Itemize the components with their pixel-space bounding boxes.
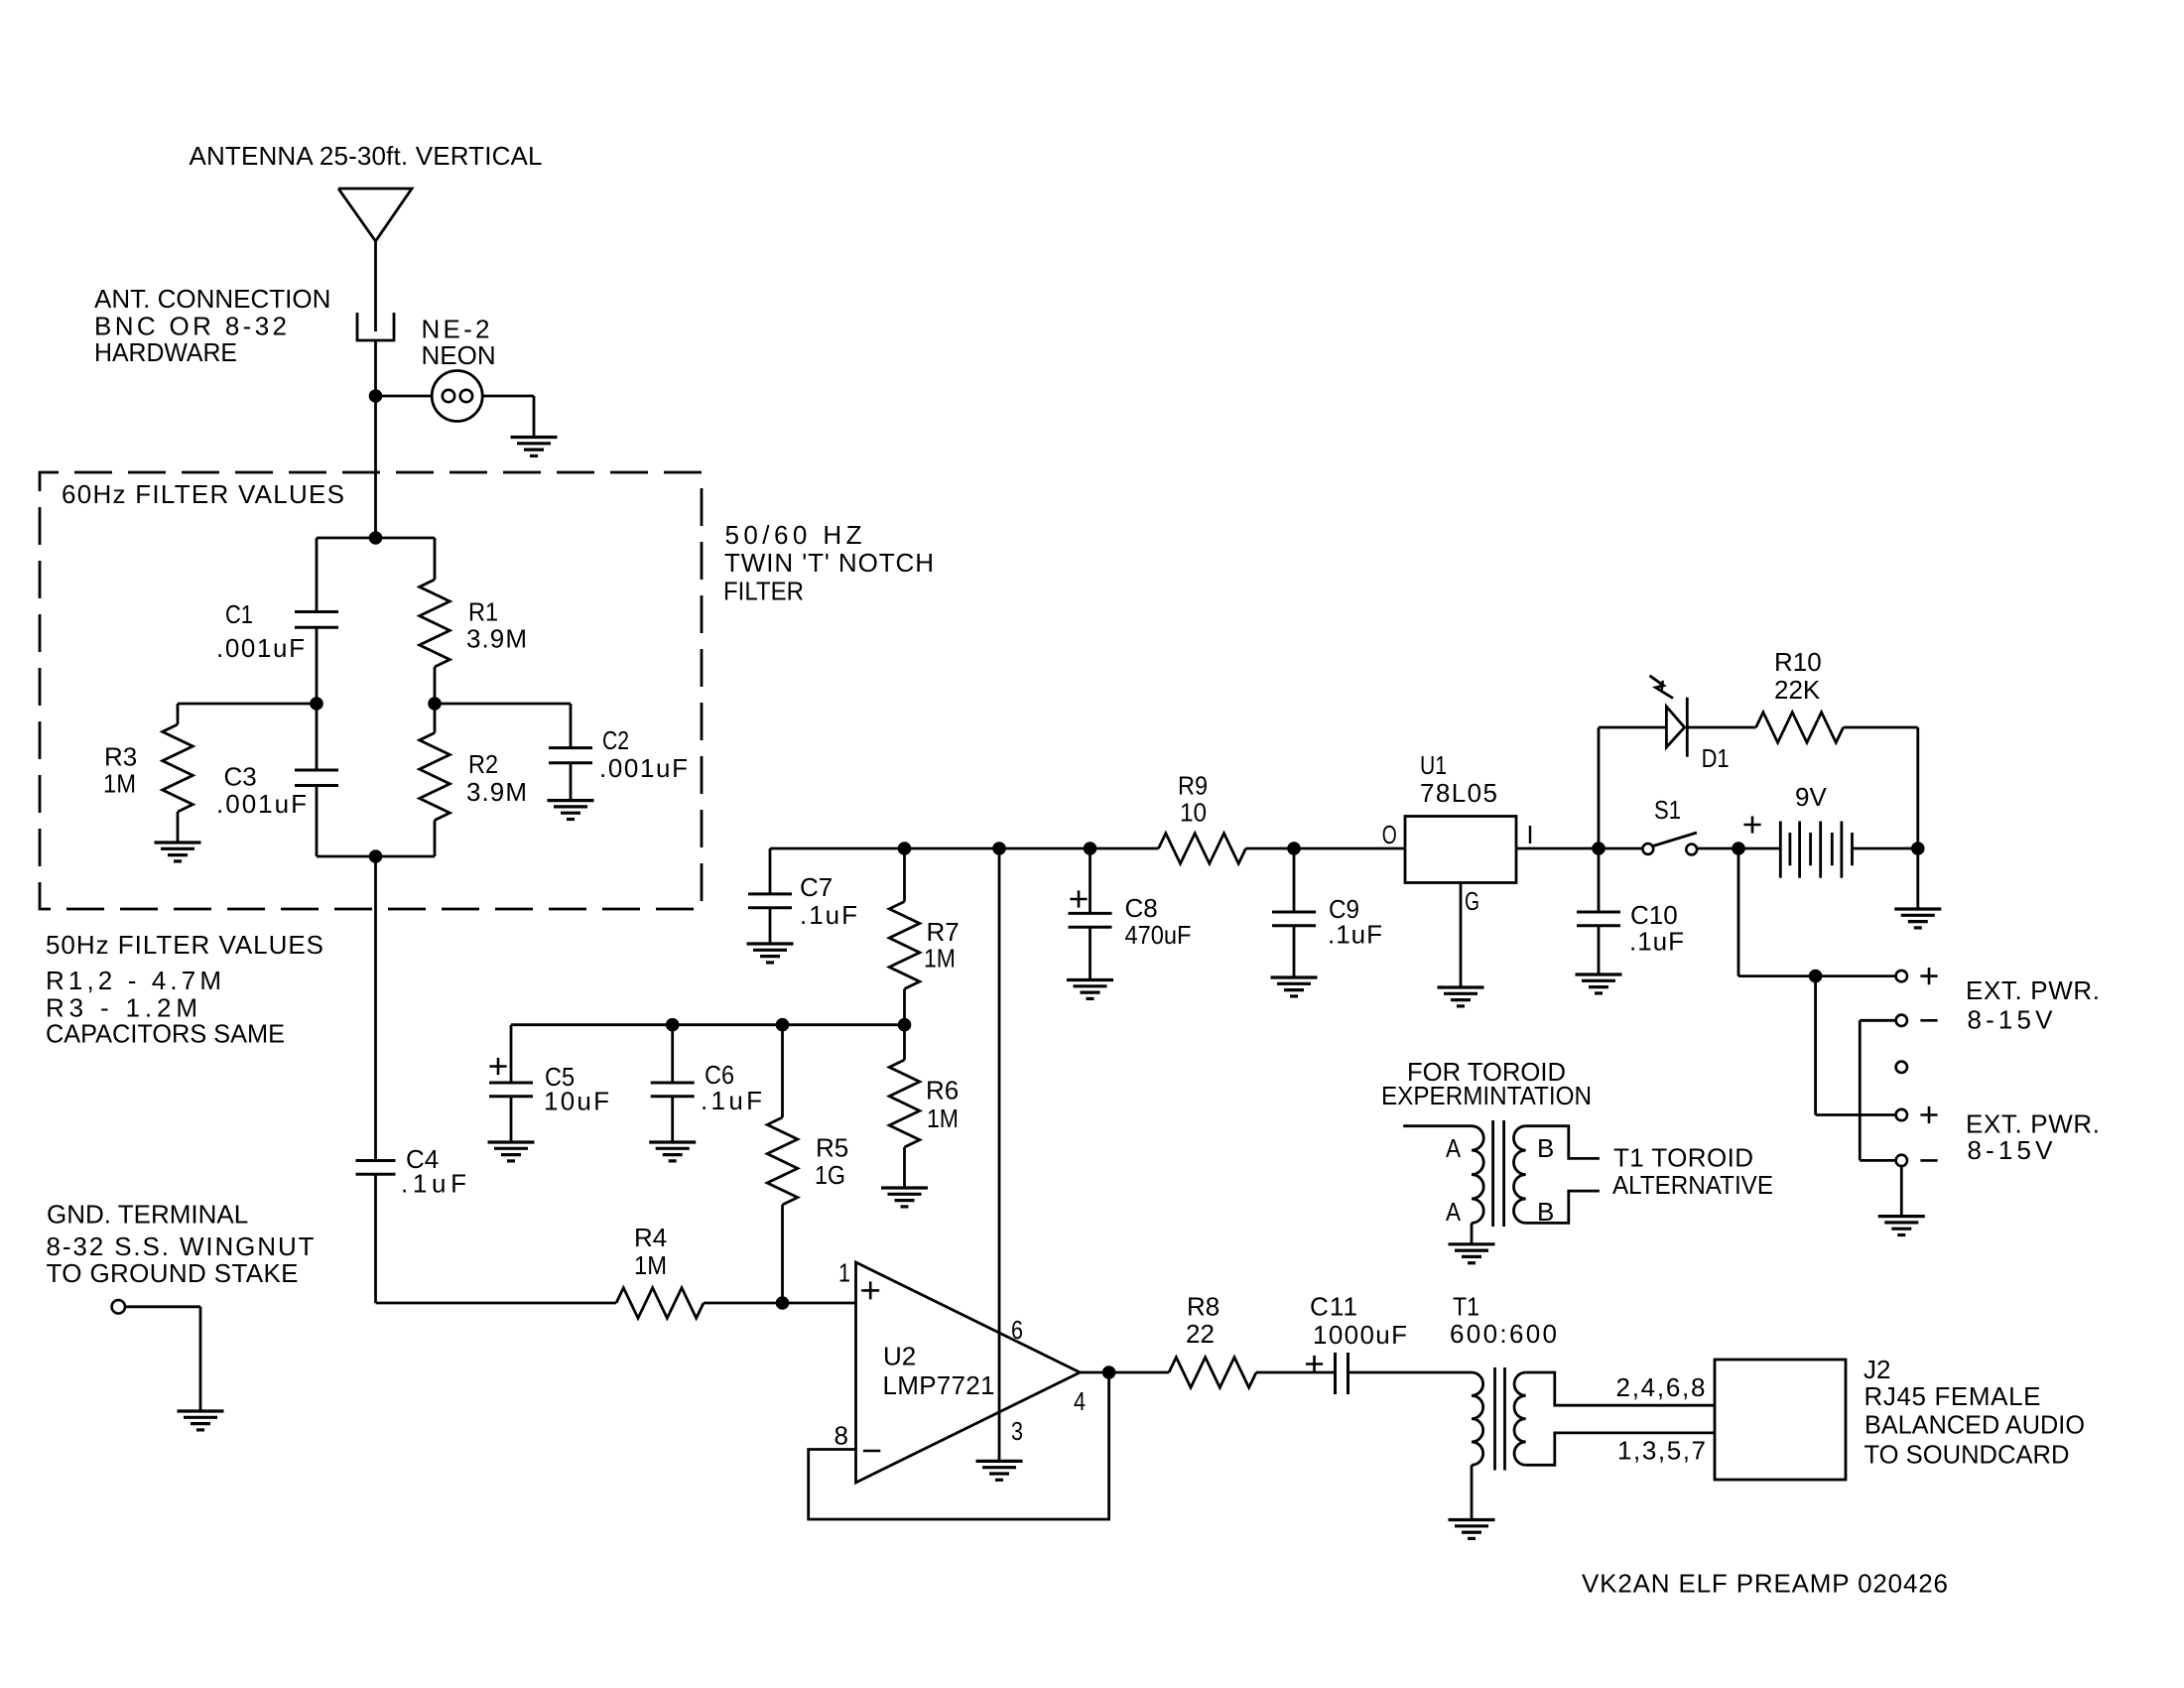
U2 plus input sign: [861, 1289, 879, 1292]
svg-text:1M: 1M: [103, 768, 136, 798]
node R5 top: [776, 1018, 790, 1032]
svg-text:50/60 HZ: 50/60 HZ: [725, 520, 862, 550]
svg-text:R3: R3: [104, 742, 137, 772]
wire C7 to ground: [769, 908, 772, 944]
capacitor C1: [295, 610, 338, 613]
svg-text:78L05: 78L05: [1420, 778, 1497, 808]
resistor R5: [767, 1117, 798, 1205]
svg-text:50Hz FILTER VALUES: 50Hz FILTER VALUES: [46, 930, 323, 960]
wire twin-T bottom to C4: [374, 856, 377, 1161]
svg-text:G: G: [1465, 886, 1479, 916]
capacitor C11: [1334, 1353, 1337, 1394]
svg-text:10uF: 10uF: [544, 1087, 609, 1116]
ground C10: [1576, 973, 1622, 975]
resistor R2: [420, 733, 450, 821]
svg-text:.001uF: .001uF: [216, 633, 305, 663]
ground C6: [649, 1140, 696, 1143]
svg-text:ANT. CONNECTION: ANT. CONNECTION: [94, 284, 330, 314]
ground C5: [488, 1140, 535, 1143]
wire T1 primary to ground: [1471, 1465, 1474, 1519]
connector J1 ant. connection: [357, 313, 394, 340]
wire U2 output: [1080, 1371, 1169, 1374]
diode D1 LED: [1666, 707, 1684, 747]
svg-text:R6: R6: [926, 1076, 959, 1105]
svg-text:J2: J2: [1863, 1355, 1890, 1384]
ext pwr 2 plus sign: [1920, 1113, 1937, 1116]
wire C5 to ground: [510, 1097, 513, 1142]
wire U1 to switch node: [1516, 847, 1642, 850]
wire C4 to corner: [374, 1174, 377, 1303]
resistor R7: [889, 902, 920, 989]
C5 plus sign: [489, 1065, 506, 1068]
capacitor C10: [1577, 911, 1620, 914]
svg-text:3: 3: [1011, 1416, 1023, 1446]
svg-text:22K: 22K: [1774, 675, 1821, 705]
svg-text:R1: R1: [468, 597, 498, 627]
wire R7 top lead: [903, 848, 906, 902]
wire toroid B top lead: [1526, 1126, 1600, 1159]
svg-text:8: 8: [835, 1421, 848, 1451]
wire R6 top lead: [903, 1025, 906, 1060]
ground gnd terminal: [178, 1409, 224, 1412]
svg-text:CAPACITORS SAME: CAPACITORS SAME: [46, 1019, 285, 1049]
LED D1 light arrow: [1650, 676, 1674, 699]
transformer toroid primary A: [1472, 1126, 1483, 1224]
wire mid supply rail: [511, 1023, 905, 1026]
node R7 top: [898, 842, 912, 855]
svg-text:R9: R9: [1178, 771, 1208, 801]
wire C6 to ground: [671, 1097, 674, 1142]
wire ext pwr minus link: [1860, 1019, 1895, 1022]
wire R3 to ground: [177, 812, 180, 843]
svg-text:RJ45 FEMALE: RJ45 FEMALE: [1864, 1381, 2041, 1411]
ground toroid: [1449, 1242, 1495, 1245]
svg-text:1M: 1M: [634, 1250, 667, 1280]
connector J2 RJ45 box: [1715, 1360, 1846, 1480]
wire C9 top lead: [1293, 848, 1296, 912]
svg-text:3.9M: 3.9M: [466, 624, 527, 654]
svg-text:R4: R4: [634, 1223, 667, 1252]
ground T1: [1449, 1518, 1495, 1521]
resistor R4: [616, 1288, 704, 1319]
svg-text:A: A: [1446, 1133, 1462, 1163]
resistor R8: [1169, 1358, 1256, 1388]
wire toroid primary lead: [1403, 1124, 1472, 1127]
svg-text:.1uF: .1uF: [1328, 920, 1382, 950]
svg-text:A: A: [1446, 1197, 1462, 1227]
terminal ext pwr spare: [1896, 1062, 1907, 1073]
node U2 output: [1102, 1365, 1116, 1379]
capacitor C4: [356, 1159, 396, 1162]
dashed box 60Hz filter values: [40, 472, 702, 909]
wire R1 bottom lead: [434, 667, 437, 704]
wire R4 to opamp: [704, 1302, 856, 1305]
wire R9 to U1: [1246, 847, 1406, 850]
wire C5 top lead: [510, 1025, 513, 1083]
neon lamp NE-2: [432, 371, 482, 422]
op-amp U2 triangle: [856, 1262, 1081, 1483]
svg-text:4: 4: [1074, 1386, 1086, 1416]
svg-text:C8: C8: [1125, 893, 1158, 923]
resistor R6: [889, 1060, 920, 1147]
capacitor C9: [1272, 911, 1316, 914]
ground C2: [548, 799, 594, 802]
ground U2 pin3: [976, 1460, 1023, 1463]
svg-text:C1: C1: [225, 599, 253, 629]
wire C8 to ground: [1089, 927, 1092, 979]
terminal ext pwr 2 plus: [1896, 1109, 1907, 1120]
svg-text:EXPERMINTATION: EXPERMINTATION: [1381, 1081, 1592, 1110]
wire battery minus to ground: [1916, 848, 1919, 909]
wire mid-right to C2: [435, 703, 571, 706]
svg-text:R7: R7: [927, 917, 960, 947]
ext pwr 1 plus sign: [1920, 974, 1937, 977]
wire C8 top lead: [1089, 848, 1092, 913]
svg-text:.1uF: .1uF: [701, 1086, 762, 1115]
wire R5 top lead: [781, 1025, 784, 1117]
terminal ext pwr 2 minus: [1896, 1155, 1907, 1166]
regulator U1 78L05 box: [1405, 817, 1516, 883]
svg-text:22: 22: [1186, 1319, 1215, 1349]
svg-text:8-15V: 8-15V: [1968, 1005, 2054, 1035]
transformer T1 primary: [1472, 1372, 1483, 1465]
svg-text:60Hz FILTER VALUES: 60Hz FILTER VALUES: [62, 479, 344, 509]
svg-text:C11: C11: [1310, 1292, 1357, 1322]
svg-text:10: 10: [1180, 798, 1207, 828]
svg-text:C10: C10: [1630, 900, 1678, 930]
wire mid-left to R3: [178, 703, 317, 706]
antenna symbol: [338, 189, 412, 241]
svg-text:C3: C3: [224, 761, 257, 791]
node C6 top: [666, 1018, 680, 1032]
wire C3 bottom lead: [316, 786, 319, 857]
capacitor C2: [549, 746, 592, 749]
C11 plus sign: [1306, 1363, 1323, 1365]
wire T1 secondary top lead: [1526, 1372, 1715, 1405]
wire R2 top lead: [434, 704, 437, 733]
svg-text:.001uF: .001uF: [599, 753, 688, 783]
wire C7 corner lead: [769, 848, 772, 894]
ground U1 G: [1438, 985, 1484, 988]
svg-text:.1uF: .1uF: [1629, 927, 1684, 957]
wire main rail left: [770, 847, 1159, 850]
svg-text:EXT. PWR.: EXT. PWR.: [1966, 975, 2100, 1005]
ground R6: [881, 1186, 928, 1189]
wire antenna node down: [374, 396, 377, 538]
svg-text:1M: 1M: [927, 1104, 959, 1133]
svg-text:VK2AN ELF PREAMP 020426: VK2AN ELF PREAMP 020426: [1582, 1569, 1948, 1599]
wire ext pwr junction down: [1814, 976, 1817, 1115]
wire ext pwr minus to ground: [1900, 1166, 1903, 1217]
transformer toroid core: [1491, 1120, 1494, 1227]
node R5 bottom junction: [776, 1296, 790, 1310]
svg-text:T1 TOROID: T1 TOROID: [1613, 1143, 1753, 1173]
capacitor C8: [1069, 912, 1112, 915]
wire U1 G lead: [1460, 883, 1463, 988]
capacitor C3: [295, 769, 338, 772]
svg-text:3.9M: 3.9M: [466, 777, 527, 807]
terminal ext pwr 1 minus: [1896, 1015, 1907, 1026]
node ext pwr junction: [1809, 970, 1823, 983]
wire C10 top lead: [1598, 848, 1601, 912]
wire R8 to C11: [1256, 1371, 1336, 1374]
wire C2 to ground: [570, 763, 573, 801]
svg-text:1000uF: 1000uF: [1313, 1320, 1407, 1350]
svg-text:D1: D1: [1702, 743, 1730, 773]
svg-text:R10: R10: [1774, 647, 1822, 677]
svg-text:B: B: [1537, 1133, 1554, 1163]
svg-text:8-32 S.S. WINGNUT: 8-32 S.S. WINGNUT: [47, 1232, 315, 1261]
svg-text:470uF: 470uF: [1125, 920, 1192, 950]
svg-text:2,4,6,8: 2,4,6,8: [1616, 1372, 1706, 1402]
resistor R1: [420, 580, 450, 667]
wire C3 top lead: [316, 704, 319, 770]
node battery minus: [1911, 842, 1925, 855]
node opamp supply: [992, 842, 1006, 855]
svg-text:FILTER: FILTER: [723, 577, 804, 606]
U2 minus input sign: [863, 1450, 880, 1453]
ground ext pwr: [1878, 1215, 1925, 1218]
resistor R10: [1756, 713, 1844, 743]
svg-text:.001uF: .001uF: [216, 789, 307, 819]
transformer T1 secondary: [1514, 1372, 1526, 1465]
wire R6 to ground: [903, 1147, 906, 1188]
svg-text:1: 1: [838, 1258, 850, 1288]
node C8 top: [1084, 842, 1097, 855]
node twin-T mid-left: [310, 697, 323, 711]
svg-text:R2: R2: [468, 749, 498, 779]
svg-text:O: O: [1382, 820, 1397, 849]
wire R7 bottom lead: [903, 989, 906, 1025]
wire R1 top lead: [434, 538, 437, 580]
wire connector to node: [374, 340, 377, 396]
node C10 top: [1592, 842, 1606, 855]
svg-text:U1: U1: [1420, 750, 1447, 780]
ground battery: [1894, 907, 1941, 910]
capacitor C5: [489, 1082, 533, 1085]
wire S1 to battery node: [1696, 847, 1780, 850]
wire C10 to ground: [1598, 926, 1601, 974]
node antenna junction: [369, 389, 383, 403]
wire C1 bottom lead: [316, 627, 319, 704]
wire toroid B bottom lead: [1526, 1191, 1600, 1223]
wire antenna stem: [374, 241, 377, 331]
svg-text:ALTERNATIVE: ALTERNATIVE: [1612, 1170, 1773, 1200]
svg-text:600:600: 600:600: [1450, 1319, 1557, 1349]
svg-text:9V: 9V: [1795, 782, 1827, 812]
wire twin-T top rail: [317, 537, 435, 540]
wire C6 top lead: [671, 1025, 674, 1083]
resistor R3: [163, 724, 193, 812]
svg-text:6: 6: [1011, 1315, 1023, 1345]
wire R5 bottom lead: [781, 1205, 784, 1303]
wire U2 feedback: [809, 1372, 1109, 1519]
wire R2 bottom lead: [434, 821, 437, 857]
wire toroid primary to ground: [1471, 1223, 1474, 1243]
capacitor C6: [651, 1082, 695, 1085]
wire C11 to T1: [1349, 1371, 1473, 1374]
svg-text:R5: R5: [816, 1133, 848, 1163]
ext pwr 1 minus sign: [1920, 1019, 1937, 1022]
svg-text:TO SOUNDCARD: TO SOUNDCARD: [1864, 1440, 2070, 1470]
ext pwr 2 minus sign: [1920, 1159, 1937, 1162]
node C9 top: [1287, 842, 1301, 855]
switch S1: [1642, 844, 1653, 854]
wire gnd terminal: [125, 1305, 200, 1308]
node battery plus: [1732, 842, 1745, 855]
transformer T1 core: [1493, 1367, 1496, 1471]
svg-text:T1: T1: [1453, 1292, 1479, 1322]
svg-text:C7: C7: [800, 872, 833, 902]
svg-text:TWIN 'T' NOTCH: TWIN 'T' NOTCH: [724, 548, 934, 578]
wire node to neon: [376, 395, 433, 398]
terminal ext pwr 1 plus: [1896, 971, 1907, 981]
wire opamp supply line: [998, 848, 1001, 1461]
wire neon to ground: [482, 395, 534, 398]
svg-text:NEON: NEON: [422, 340, 496, 370]
transformer toroid secondary B: [1513, 1126, 1525, 1224]
svg-text:1G: 1G: [815, 1160, 845, 1190]
svg-text:BALANCED AUDIO: BALANCED AUDIO: [1864, 1410, 2085, 1440]
svg-text:HARDWARE: HARDWARE: [94, 337, 237, 367]
svg-text:R1,2 - 4.7M: R1,2 - 4.7M: [46, 966, 221, 995]
svg-text:LMP7721: LMP7721: [883, 1370, 995, 1400]
C8 plus sign: [1070, 898, 1087, 901]
battery 9V: [1779, 822, 1782, 878]
wire battery to right node: [1853, 847, 1918, 850]
svg-text:BNC OR 8-32: BNC OR 8-32: [94, 312, 287, 341]
ground C7: [747, 942, 794, 945]
svg-text:NE-2: NE-2: [422, 314, 490, 343]
svg-text:8-15V: 8-15V: [1968, 1135, 2054, 1165]
wire D1 branch up: [1598, 727, 1601, 848]
battery plus sign: [1743, 824, 1760, 827]
ground neon: [511, 436, 558, 439]
wire C1 top lead: [316, 538, 319, 612]
capacitor C7: [748, 892, 792, 895]
wire battery node to ext pwr: [1737, 848, 1740, 976]
wire twin-T bottom rail: [317, 855, 435, 858]
svg-text:I: I: [1526, 820, 1533, 849]
wire C9 to ground: [1293, 926, 1296, 977]
ground C8: [1067, 978, 1113, 981]
terminal gnd stake: [112, 1300, 125, 1313]
wire R10 to battery corner: [1844, 726, 1918, 729]
ground R3: [155, 841, 201, 844]
resistor R9: [1159, 834, 1246, 864]
svg-text:GND. TERMINAL: GND. TERMINAL: [47, 1200, 248, 1230]
svg-text:1M: 1M: [924, 944, 956, 974]
wire T1 secondary bottom lead: [1526, 1433, 1715, 1465]
svg-text:U2: U2: [883, 1342, 916, 1371]
ground C9: [1271, 975, 1318, 978]
svg-text:ANTENNA 25-30ft. VERTICAL: ANTENNA 25-30ft. VERTICAL: [190, 141, 543, 171]
svg-text:1,3,5,7: 1,3,5,7: [1617, 1436, 1706, 1466]
svg-text:R8: R8: [1187, 1292, 1220, 1322]
svg-text:S1: S1: [1654, 795, 1681, 825]
node twin-T mid-right: [428, 697, 442, 711]
svg-text:.1uF: .1uF: [800, 900, 857, 930]
wire D1 to R10: [1687, 726, 1755, 729]
svg-text:TO GROUND STAKE: TO GROUND STAKE: [47, 1258, 299, 1288]
node twin-T top: [369, 531, 383, 545]
node R6 top: [898, 1018, 912, 1032]
node twin-T bottom: [369, 849, 383, 863]
svg-text:C2: C2: [602, 725, 629, 755]
